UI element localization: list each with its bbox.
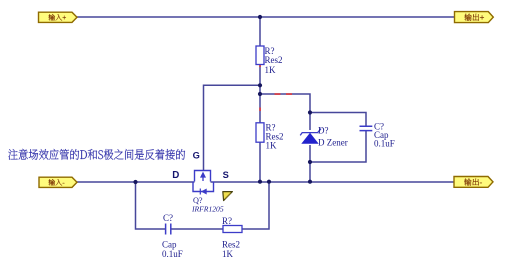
svg-text:0.1uF: 0.1uF <box>162 249 183 259</box>
svg-text:Q?: Q? <box>193 196 203 205</box>
svg-text:0.1uF: 0.1uF <box>374 139 395 149</box>
svg-text:Cap: Cap <box>162 240 177 250</box>
svg-text:Res2: Res2 <box>265 55 283 65</box>
svg-text:D: D <box>172 170 179 181</box>
svg-text:1K: 1K <box>222 249 234 259</box>
svg-text:S: S <box>223 170 229 180</box>
svg-text:1K: 1K <box>265 65 277 75</box>
svg-text:R?: R? <box>222 216 232 226</box>
svg-text:Res2: Res2 <box>222 240 240 250</box>
svg-text:C?: C? <box>163 213 173 223</box>
svg-text:IRFR1205: IRFR1205 <box>191 205 224 214</box>
svg-text:G: G <box>193 150 200 160</box>
svg-text:D?: D? <box>318 126 329 136</box>
svg-text:1K: 1K <box>266 141 278 151</box>
svg-text:D Zener: D Zener <box>318 138 348 148</box>
